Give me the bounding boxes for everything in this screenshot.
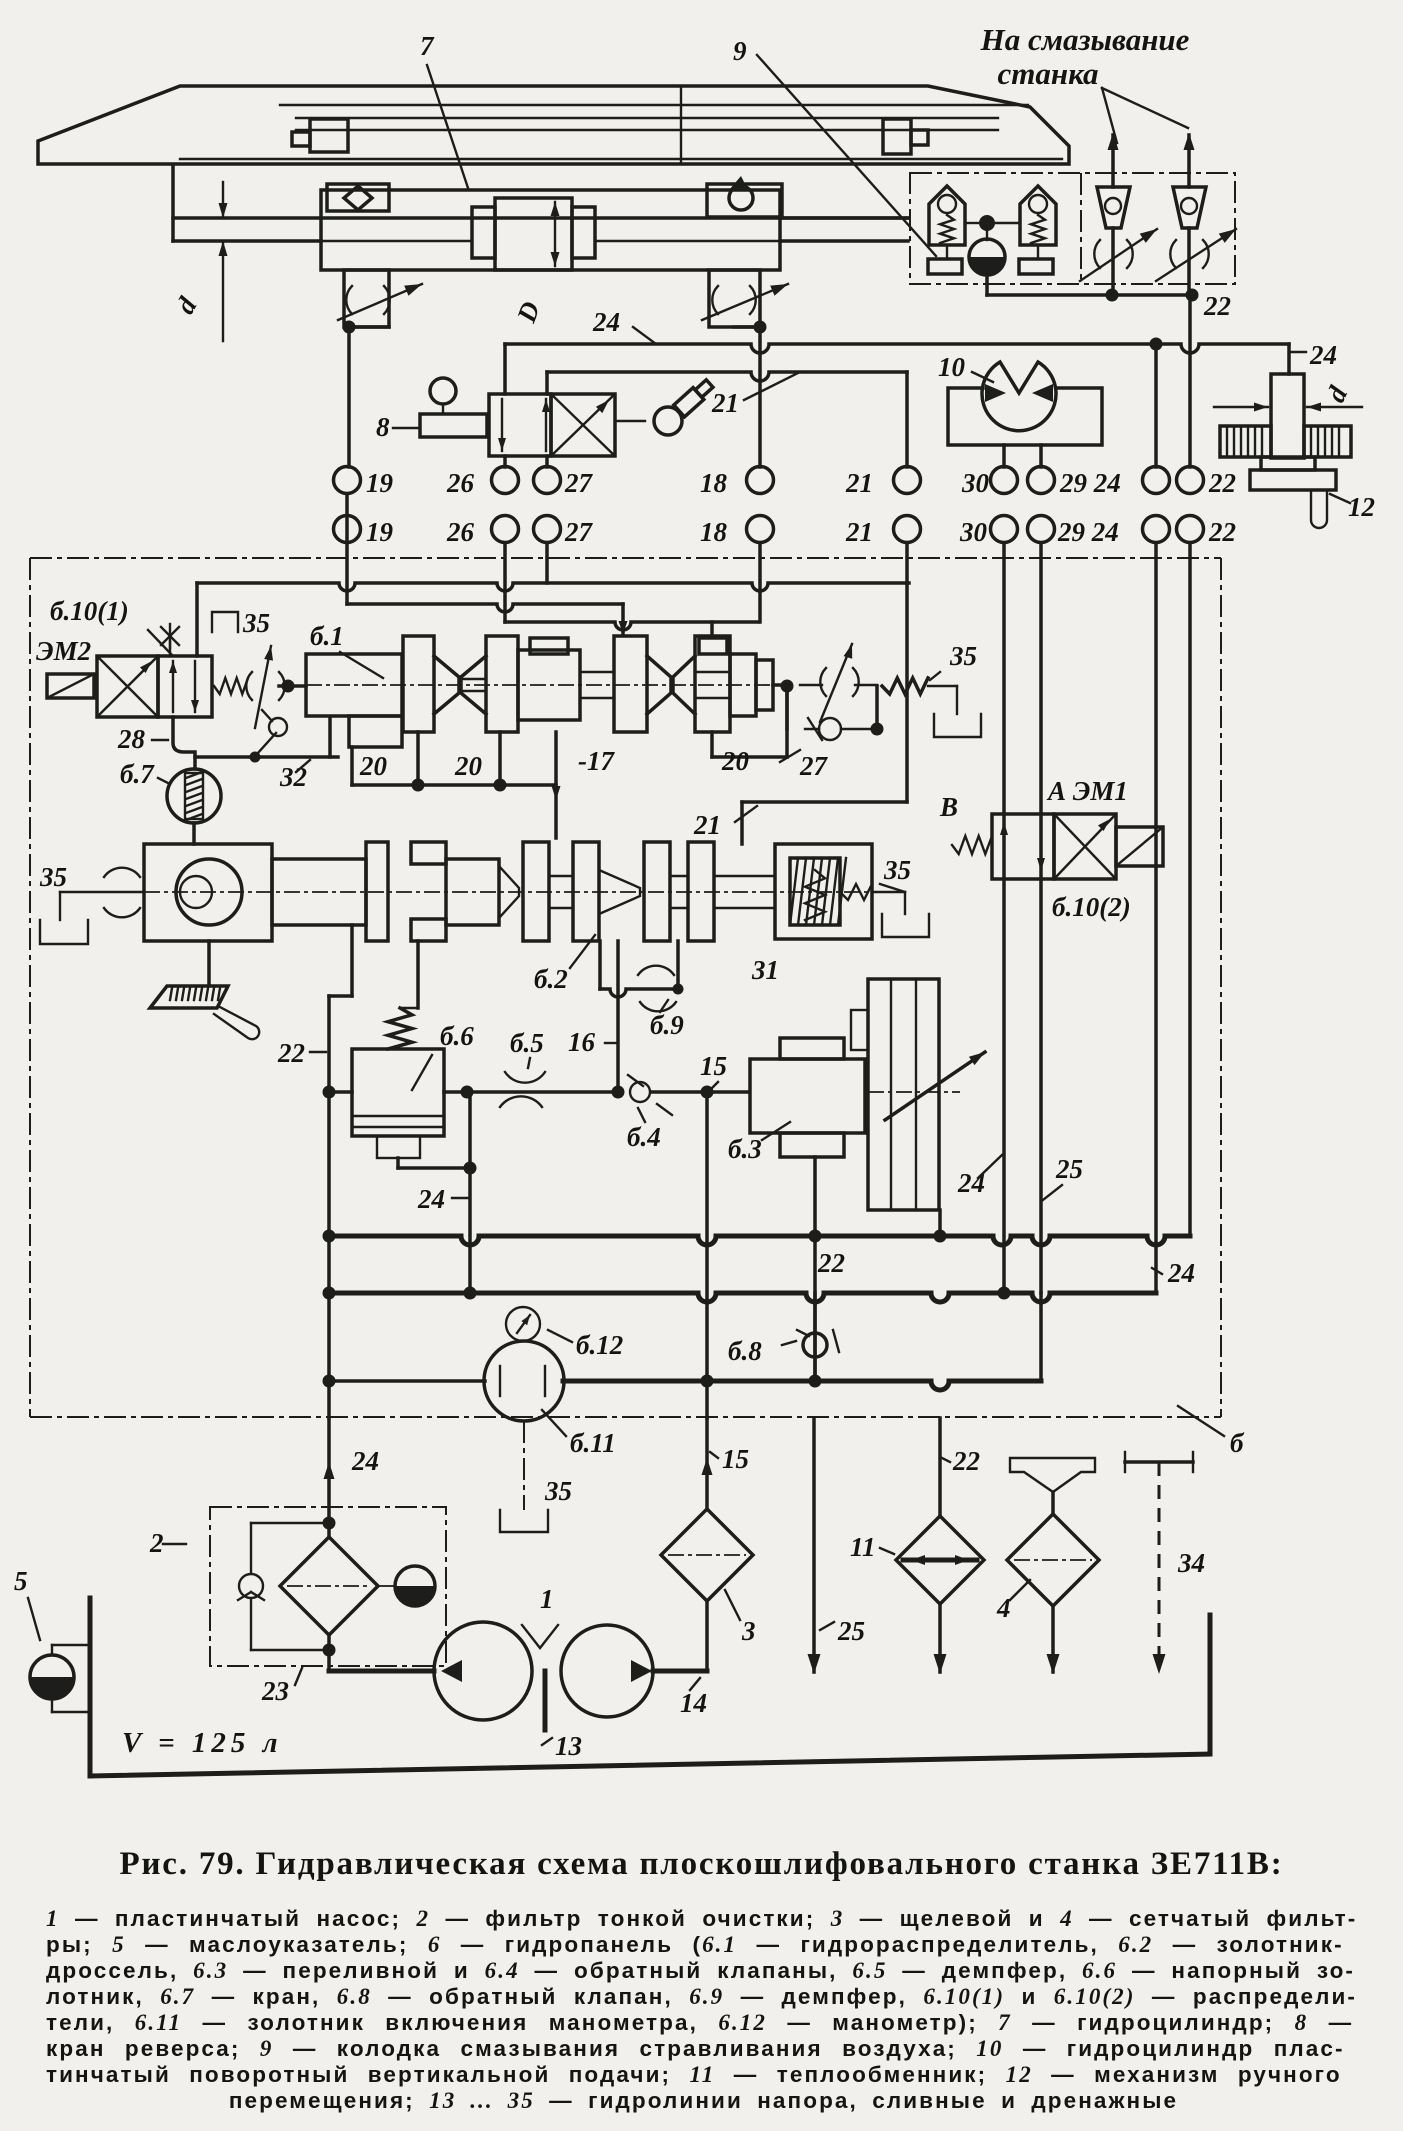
check valve 6.8 [813,1293,817,1381]
svg-text:21: 21 [693,810,721,840]
6.1 top tabs [530,638,568,654]
svg-text:29 24: 29 24 [1057,517,1119,547]
svg-text:15: 15 [722,1444,749,1474]
svg-text:б.8: б.8 [728,1336,762,1366]
svg-text:27: 27 [564,468,594,498]
svg-text:35: 35 [242,608,270,638]
wire bus583 down to valve 6.10(1) [195,583,199,656]
6.1 axis [306,684,773,686]
svg-text:б.4: б.4 [627,1122,661,1152]
main 24 line down to filter 2 [327,1418,331,1522]
dimension d left [222,182,224,218]
throttle with arrow [246,672,252,700]
svg-text:13: 13 [555,1731,582,1761]
35 damper left [60,891,144,893]
wire to port 24 [1154,344,1158,467]
screw handle left [310,119,348,152]
svg-text:21: 21 [845,517,873,547]
6.3 drain down [813,1157,817,1381]
drip feeder left [1097,187,1130,228]
svg-text:16: 16 [568,1027,596,1057]
wire leg left to port 19 [349,325,389,329]
cylinder leg right with throttle [709,270,760,327]
cylinder 10 bracket [948,388,1102,445]
svg-text:3: 3 [741,1616,756,1646]
svg-text:23: 23 [261,1676,289,1706]
gauge 6.12 [506,1307,540,1341]
svg-text:30: 30 [961,468,990,498]
wire y1095 6.6 to 6.3 [444,1090,618,1094]
journal box left with diamond [327,184,389,211]
wire 16 from 6.2 to check 6.4 [616,941,620,1095]
wire pipe y622 26-18 [505,622,758,630]
svg-text:24: 24 [1167,1258,1195,1288]
svg-text:11: 11 [850,1532,876,1562]
wire 6.6 inlet y1092 [329,1090,352,1094]
wire 22 from 6.2 [350,925,354,996]
svg-text:б.11: б.11 [570,1428,616,1458]
svg-text:19: 19 [366,468,394,498]
rotary vane cylinder 10 [982,362,1056,431]
lube throttle left [1094,240,1100,268]
wire 22 down through HX 11 [938,1418,942,1515]
svg-text:30: 30 [959,517,988,547]
gear left comb [1220,426,1271,457]
journal box right with ball [707,184,782,217]
svg-text:б.2: б.2 [534,964,568,994]
svg-text:14: 14 [680,1688,707,1718]
6.2 barrel [272,859,366,925]
svg-text:б.1: б.1 [310,621,344,651]
6.6 drain to 24 line [377,1136,420,1158]
wire pipe y604 to valve 6.1 [347,604,623,612]
wire port19 down [345,494,349,604]
node to 6.1 [282,680,295,693]
svg-text:18: 18 [700,517,728,547]
bus1 y1236 (22) [329,1236,1187,1245]
svg-text:31: 31 [751,955,779,985]
dimension D [554,202,556,266]
label 6 (panel) [1178,1406,1224,1436]
filter 4 diamond [1007,1514,1099,1606]
wire port29 down through EM1 [1039,543,1043,1293]
valve 6.3 [780,1038,844,1059]
svg-text:26: 26 [446,517,475,547]
wire 15 down [705,1092,709,1418]
throttle 27 [820,668,826,696]
svg-text:21: 21 [845,468,873,498]
svg-text:А ЭМ1: А ЭМ1 [1046,776,1128,806]
brush symbol [207,941,211,985]
wire bus y583 [197,583,909,591]
lube drain line 22 [985,275,989,295]
svg-text:35: 35 [883,855,911,885]
plates drain down 25 [938,1210,942,1236]
gauge valve 6.11 [484,1341,564,1421]
wire port 22 down from lube [1188,295,1192,467]
wire port18 down [758,543,762,622]
lube throttle right [1170,240,1176,268]
svg-text:1: 1 [540,1584,554,1614]
wire port26 down [503,543,507,622]
spring to 6.6 [388,1008,412,1049]
wire valve8 to circles 26 27 [503,456,507,467]
svg-text:б.5: б.5 [510,1028,544,1058]
svg-text:34: 34 [1177,1548,1205,1578]
wire 24 to handwheel [1287,344,1291,374]
svg-text:станка: станка [997,56,1098,91]
35 drain right of 31 [872,891,905,893]
crane 6.7 [167,769,221,823]
filter 3 diamond [661,1509,753,1601]
svg-text:22: 22 [817,1248,845,1278]
svg-text:25: 25 [837,1616,865,1646]
pressure line 14 to filter 3 [653,1669,707,1674]
leader line 9 [757,55,936,256]
svg-text:28: 28 [117,724,146,754]
valve 6.10(1) body [97,656,158,717]
svg-text:7: 7 [420,31,435,61]
svg-text:ЭМ2: ЭМ2 [36,636,91,666]
wire 25 down arrow [812,1418,816,1672]
valve 8 body [489,394,551,456]
heat exchanger 11 [896,1516,984,1604]
svg-text:27: 27 [799,751,829,781]
6.1 right tab wire 20 [710,732,714,757]
damper 6.5 [505,1072,545,1083]
svg-text:10: 10 [938,352,966,382]
screw handle right [883,119,911,154]
drip feeder right [1173,187,1206,228]
6.2 lands [366,842,388,941]
wire 32 with ball [269,718,287,736]
svg-text:б.10(2): б.10(2) [1052,892,1131,922]
wire 15 into panel [705,1418,709,1509]
6.2 left block with circles [144,844,272,941]
dimension d right [1214,406,1268,408]
filter 2 diamond [280,1537,378,1635]
hydrocylinder 7 body [321,190,780,270]
svg-text:22: 22 [1208,468,1236,498]
svg-text:19: 19 [366,517,394,547]
table rails / screw rod lines [280,104,1028,106]
cylinder leg left with throttle [344,270,389,327]
svg-text:35: 35 [544,1476,572,1506]
svg-text:27: 27 [564,517,594,547]
leader line 7 [427,65,468,188]
svg-text:24: 24 [351,1446,379,1476]
6.1 step box [349,716,402,747]
svg-text:22: 22 [1203,291,1231,321]
wire 24 top bus [503,344,507,394]
wire port24 down [1154,543,1158,1293]
relief valve right [1020,186,1056,245]
machine table 7 top plate [38,86,1069,164]
bus2 y1293 (24) [329,1293,1156,1302]
svg-text:24: 24 [957,1168,985,1198]
6.2 funnels [499,866,519,918]
svg-text:В: В [939,792,958,822]
6.1 middle block [518,650,580,720]
handwheel base [1261,457,1315,470]
svg-text:20: 20 [359,751,388,781]
wire leg right to port 18 [734,325,760,329]
wire port22 down [1188,543,1192,1236]
bus3 y1381 gauge line [329,1379,485,1383]
adjust arrow across plates [885,1052,985,1120]
6.1 lands [403,636,434,732]
wire port21 down [905,543,909,802]
rod inside body [321,217,472,219]
valve 8 lever [615,420,645,422]
svg-text:б.9: б.9 [650,1010,684,1040]
closed port symbol (star) [169,641,171,656]
svg-text:4: 4 [996,1593,1011,1623]
svg-text:26: 26 [446,468,475,498]
31 box with hatch [775,844,872,939]
6.1 funnels [434,656,459,714]
svg-text:На смазывание: На смазывание [980,22,1190,57]
oil level indicator 5 [30,1655,74,1699]
pump 1 circles [434,1622,532,1720]
svg-text:35: 35 [39,862,67,892]
6.1 left block [306,654,402,716]
svg-text:12: 12 [1348,492,1375,522]
tank walls [1208,1615,1213,1754]
svg-text:б.3: б.3 [728,1134,762,1164]
piston [495,198,572,270]
svg-text:29 24: 29 24 [1059,468,1121,498]
piston rod [171,165,175,241]
gear right comb [1304,426,1351,457]
cylinder 10 stem to ports 30 29 [1002,445,1006,467]
valve 6.6 [352,1049,444,1136]
pump drain 13 [543,1671,548,1730]
svg-text:22: 22 [952,1446,980,1476]
svg-text:-17: -17 [578,746,615,776]
filter 4 funnel [1010,1458,1095,1492]
svg-text:15: 15 [700,1051,727,1081]
handwheel stem [1271,374,1304,458]
hydropanel 6 dash-dot border [30,557,1221,559]
relief valve left [929,186,965,245]
drain bracket above [212,612,238,632]
valve 8 gauge [430,378,456,404]
svg-text:24: 24 [592,307,620,337]
wire to port 21 [545,372,549,394]
svg-text:24: 24 [1309,340,1337,370]
6.1 bottom wires 20 20 17 [416,732,420,785]
6.11 drain 35 dashed [523,1421,525,1510]
svg-text:б.7: б.7 [120,759,155,789]
svg-text:2: 2 [149,1528,164,1558]
spring right of valve [214,678,248,694]
svg-text:25: 25 [1055,1154,1083,1184]
wire from 6.1 right end [773,683,787,687]
svg-text:22: 22 [1208,517,1236,547]
filter 2 dash box [210,1507,446,1666]
svg-text:20: 20 [454,751,483,781]
svg-text:d: d [170,292,203,319]
svg-text:D: D [511,298,546,328]
port circles row 1 y=480 [334,467,361,494]
valve 8 handle [420,414,487,437]
wire 24 branch [468,1092,472,1293]
plate cylinder stack [868,979,939,1210]
svg-text:б.12: б.12 [576,1330,623,1360]
wire 24 main vertical [327,1092,331,1418]
oiler ball 2 [395,1566,435,1606]
svg-text:21: 21 [711,388,739,418]
spring to drain 35 [882,678,928,694]
suction line to pumps [327,1650,331,1671]
handwheel handle 12 [1311,490,1327,528]
svg-text:d: d [1320,381,1353,406]
damper 6.9 [598,941,602,989]
svg-text:8: 8 [376,412,390,442]
drain 34 dashed [1125,1460,1193,1464]
check valve 27 [785,686,789,729]
svg-text:V = 125 л: V = 125 л [122,1727,282,1759]
6.1 right block [730,654,756,716]
filter 2 bypass [251,1522,329,1524]
svg-text:б.10(1): б.10(1) [50,596,129,626]
svg-text:18: 18 [700,468,728,498]
wire port30 down through EM1 [1002,543,1006,1293]
svg-text:9: 9 [733,36,747,66]
oiler ball [965,222,978,224]
wire port27 down [545,543,549,583]
svg-text:5: 5 [14,1566,28,1596]
wire 21 to valve 6.2 [742,800,907,804]
svg-text:22: 22 [277,1038,305,1068]
svg-text:35: 35 [949,641,977,671]
6.2 axis [60,891,872,893]
leaders to lubrication arrows [1102,88,1117,143]
lubrication block dash-dot box [910,173,1235,284]
port circles row 2 y=529 [334,516,361,543]
svg-text:24: 24 [417,1184,445,1214]
wire 28 valve to crane 6.7 [173,717,195,769]
svg-text:б.6: б.6 [440,1021,474,1051]
svg-text:20: 20 [721,746,750,776]
svg-text:б: б [1230,1428,1245,1458]
